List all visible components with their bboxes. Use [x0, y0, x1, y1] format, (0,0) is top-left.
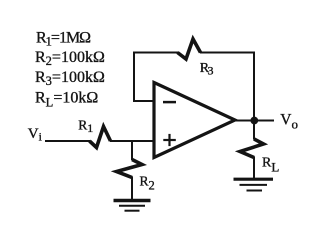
op-amp U1 triangle	[154, 83, 235, 158]
wire junction A down to R2	[131, 140, 133, 160]
svg-text:R1: R1	[78, 117, 93, 135]
wire feedback riser up	[133, 52, 135, 103]
resistor RL	[240, 139, 264, 158]
wire feedback top left to R3	[133, 52, 178, 54]
op-amp noninverting pin (plus)	[163, 134, 176, 146]
svg-text:R3=100kΩ: R3=100kΩ	[35, 69, 105, 88]
op-amp inverting pin (minus)	[163, 101, 176, 104]
wire output node down to RL	[253, 121, 255, 140]
resistor R3	[178, 39, 201, 59]
junction dot output node	[250, 117, 258, 125]
wire feedback down to output node	[253, 53, 255, 122]
svg-text:R1=1MΩ: R1=1MΩ	[36, 30, 91, 49]
resistor R2	[117, 160, 143, 178]
svg-text:R2=100kΩ: R2=100kΩ	[35, 49, 105, 68]
wire RL to ground	[253, 157, 255, 179]
wire input Vi to R1	[45, 140, 90, 142]
wire op-amp output to Vo	[234, 120, 274, 122]
svg-text:RL=10kΩ: RL=10kΩ	[35, 90, 98, 110]
wire R3 to feedback right corner	[200, 52, 255, 54]
wire op-amp inverting input to feedback riser	[133, 100, 153, 102]
svg-text:Vi: Vi	[28, 126, 42, 144]
resistor R1	[90, 127, 111, 148]
svg-text:R2: R2	[140, 173, 155, 192]
ground below RL	[234, 179, 274, 190]
wire R1 to op-amp noninverting input (junction A)	[110, 140, 153, 142]
svg-text:R3: R3	[200, 61, 214, 78]
svg-text:RL: RL	[262, 156, 279, 175]
ground below R2	[114, 201, 151, 211]
wire R2 to ground	[131, 177, 133, 200]
svg-text:Vo: Vo	[280, 111, 298, 131]
